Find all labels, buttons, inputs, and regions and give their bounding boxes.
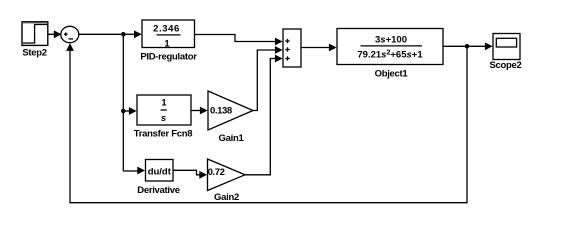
svg-text:1: 1 bbox=[164, 39, 170, 50]
block Transfer Fcn8 (integrator 1/s) bbox=[137, 95, 191, 125]
svg-text:s: s bbox=[161, 113, 166, 124]
gain Gain2 (triangle 0.72) bbox=[208, 159, 246, 191]
wire branch vertical down bbox=[122, 34, 124, 171]
block PID-regulator bbox=[142, 20, 195, 50]
sum block (+++ rectangle) bbox=[283, 29, 301, 67]
node branch dot after sum bbox=[121, 32, 126, 37]
svg-text:Gain1: Gain1 bbox=[219, 133, 245, 144]
svg-text:Step2: Step2 bbox=[22, 48, 46, 59]
svg-text:79.21s2+65s+1: 79.21s2+65s+1 bbox=[357, 50, 423, 61]
svg-text:PID-regulator: PID-regulator bbox=[140, 52, 197, 63]
wire sum block to Object1 bbox=[301, 44, 337, 52]
svg-text:1: 1 bbox=[161, 98, 167, 109]
wire feedback loop bbox=[66, 43, 467, 203]
svg-text:Gain2: Gain2 bbox=[214, 192, 239, 203]
svg-text:0.138: 0.138 bbox=[210, 105, 232, 116]
block Derivative du/dt bbox=[146, 160, 174, 182]
svg-text:Transfer Fcn8: Transfer Fcn8 bbox=[134, 129, 192, 140]
scope Scope2 bbox=[493, 34, 520, 60]
node branch dot feedback bbox=[465, 44, 470, 49]
summing junction (circle, + -) bbox=[61, 26, 79, 42]
gain Gain1 (triangle 0.138) bbox=[208, 91, 253, 130]
svg-text:Object1: Object1 bbox=[375, 68, 409, 79]
wire Gain1 to sum block input2 bbox=[253, 46, 283, 110]
node branch dot middle bbox=[121, 109, 126, 114]
wire Step2 to sum bbox=[48, 30, 62, 38]
wire branch to Transfer Fcn8 bbox=[123, 107, 136, 115]
wire Derivative to Gain2 bbox=[173, 170, 207, 178]
block Object1 (transfer function) bbox=[337, 29, 443, 65]
svg-text:2.346: 2.346 bbox=[153, 24, 180, 35]
wire Object1 to Scope2 bbox=[443, 42, 493, 50]
wire branch to Derivative bbox=[123, 167, 145, 175]
wire sum to PID-regulator bbox=[79, 30, 142, 38]
svg-text:Derivative: Derivative bbox=[137, 185, 179, 196]
svg-text:du/dt: du/dt bbox=[148, 167, 172, 178]
svg-text:0.72: 0.72 bbox=[208, 167, 225, 178]
wire Transfer Fcn8 to Gain1 bbox=[191, 107, 208, 115]
step source Step2 bbox=[22, 22, 48, 46]
wire Gain2 to sum block input3 bbox=[245, 55, 283, 175]
svg-text:3s+100: 3s+100 bbox=[375, 35, 407, 46]
svg-text:Scope2: Scope2 bbox=[490, 60, 522, 71]
wire PID to sum block input1 bbox=[195, 35, 283, 46]
